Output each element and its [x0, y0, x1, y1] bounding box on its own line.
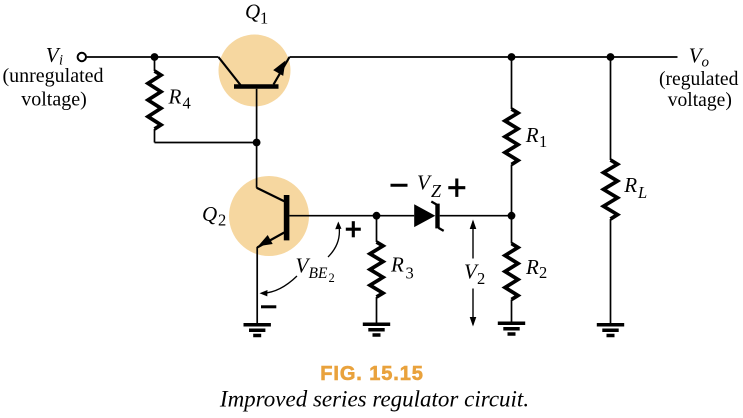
- svg-text:3: 3: [406, 264, 414, 283]
- junction dot base node: [253, 139, 261, 147]
- wire Q2 base to R3 node: [289, 215, 376, 217]
- resistor R2: [505, 216, 518, 322]
- label RL: [623, 173, 647, 202]
- transistor Q1 highlight circle: [219, 35, 291, 107]
- label Vi: [46, 43, 63, 69]
- label VZ: [417, 171, 442, 202]
- svg-text:(unregulated: (unregulated: [2, 65, 103, 87]
- svg-text:Q: Q: [245, 0, 260, 24]
- svg-text:L: L: [637, 183, 647, 202]
- wire top rail right (Q1 emitter to Vo): [290, 56, 678, 58]
- ground under R3: [363, 324, 390, 335]
- wire R4 bottom to base node: [155, 142, 257, 144]
- svg-text:(regulated: (regulated: [659, 69, 739, 90]
- transistor Q1 base bar: [234, 84, 279, 89]
- ground under Q2 emitter: [244, 325, 271, 336]
- transistor Q1 emitter diagonal: [274, 57, 290, 85]
- svg-text:R: R: [525, 255, 539, 279]
- transistor Q1 collector diagonal: [218, 57, 240, 85]
- resistor R4: [148, 57, 161, 143]
- VBE2 minus sign: [261, 305, 276, 308]
- voltage arrow V2: [470, 220, 477, 327]
- label Q1: [245, 0, 268, 27]
- caption Improved series regulator circuit.: [219, 387, 529, 412]
- svg-text:R: R: [623, 173, 637, 197]
- label VBE2: [296, 254, 335, 286]
- VBE2 plus sign: [346, 221, 361, 237]
- VBE2 curved arrow to plus: [328, 222, 342, 258]
- svg-text:1: 1: [539, 132, 547, 151]
- svg-text:2: 2: [218, 210, 226, 229]
- svg-text:2: 2: [329, 271, 335, 285]
- junction dot R1/R2 node: [508, 212, 516, 220]
- wire top rail left (Vi to Q1 collector): [87, 56, 219, 58]
- svg-text:2: 2: [477, 269, 485, 288]
- wire Q2 emitter down to ground: [256, 247, 258, 323]
- resistor R3: [370, 216, 383, 323]
- ground under R2: [498, 323, 525, 334]
- zener plus sign: [448, 179, 465, 197]
- label (unregulated voltage): [2, 65, 103, 110]
- svg-text:Improved series regulator circ: Improved series regulator circuit.: [219, 387, 529, 412]
- svg-text:BE: BE: [309, 265, 328, 282]
- transistor Q2 collector diagonal: [257, 188, 285, 201]
- junction dot RL top: [607, 53, 615, 61]
- svg-text:R: R: [390, 253, 404, 277]
- svg-text:2: 2: [539, 263, 547, 282]
- label R4: [168, 84, 191, 112]
- zener diode VZ: [414, 202, 444, 231]
- svg-text:4: 4: [183, 94, 191, 113]
- transistor Q2 base bar: [284, 195, 290, 240]
- svg-text:V: V: [417, 171, 432, 195]
- zener minus sign: [391, 184, 408, 187]
- resistor R1: [505, 57, 518, 216]
- svg-text:FIG. 15.15: FIG. 15.15: [320, 363, 424, 385]
- svg-text:R: R: [525, 123, 539, 147]
- svg-text:Z: Z: [431, 181, 442, 201]
- label R2: [525, 255, 547, 282]
- svg-text:Q: Q: [202, 202, 217, 226]
- wire zener cathode to R1/R2 node: [440, 215, 512, 217]
- label R1: [525, 123, 547, 151]
- transistor Q1 emitter arrowhead: [273, 61, 285, 76]
- svg-text:R: R: [168, 84, 182, 108]
- svg-text:1: 1: [260, 8, 268, 27]
- label Vo: [689, 44, 710, 71]
- label Q2: [202, 202, 226, 229]
- wire R3 node to zener anode: [377, 215, 415, 217]
- wire Q1 base down to node: [256, 89, 258, 143]
- label V2: [464, 260, 485, 289]
- VBE2 curved arrow to minus: [260, 276, 298, 296]
- wire base node down to Q2 collector: [256, 143, 258, 188]
- junction dot at Vi/R4 node: [151, 53, 159, 61]
- terminal Vi: [78, 53, 86, 61]
- svg-text:voltage): voltage): [668, 90, 732, 111]
- label (regulated voltage): [659, 69, 739, 111]
- svg-text:voltage): voltage): [21, 88, 87, 110]
- resistor RL: [604, 57, 618, 323]
- figure number FIG. 15.15: [320, 363, 424, 385]
- label R3: [390, 253, 414, 283]
- transistor Q2 highlight circle: [229, 176, 309, 256]
- junction dot R3 node: [373, 212, 381, 220]
- transistor Q2 emitter diagonal: [257, 233, 284, 248]
- ground under RL: [597, 325, 624, 336]
- junction dot R1 top: [508, 53, 516, 61]
- transistor Q2 emitter arrowhead: [258, 235, 273, 246]
